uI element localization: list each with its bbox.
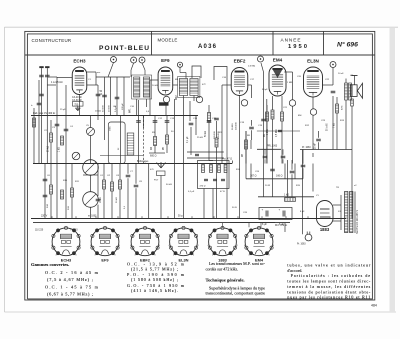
svg-text:m. 1063: m. 1063 <box>88 216 97 218</box>
svg-text:4: 4 <box>159 245 160 247</box>
svg-text:4: 4 <box>244 245 245 247</box>
svg-text:20 kΩ: 20 kΩ <box>95 111 101 113</box>
svg-text:8 μF: 8 μF <box>262 223 267 226</box>
svg-text:25 kΩ: 25 kΩ <box>100 197 102 203</box>
svg-text:4: 4 <box>115 254 116 256</box>
svg-text:1883: 1883 <box>320 227 330 232</box>
svg-text:750: 750 <box>74 103 79 106</box>
svg-text:4: 4 <box>76 254 77 256</box>
svg-text:1 MΩ: 1 MΩ <box>267 129 269 135</box>
svg-text:4: 4 <box>135 254 136 256</box>
svg-text:MF2: MF2 <box>176 95 178 100</box>
svg-text:EF9: EF9 <box>161 58 170 63</box>
svg-text:166 Ω: 166 Ω <box>276 175 283 178</box>
svg-text:0,5 MΩ: 0,5 MΩ <box>248 65 255 67</box>
svg-text:PRL 1063: PRL 1063 <box>267 145 278 147</box>
svg-text:Gammes couvertes.: Gammes couvertes. <box>31 262 69 267</box>
svg-text:EBF2: EBF2 <box>234 59 246 64</box>
svg-text:(1 580 à 508 kHz) ;: (1 580 à 508 kHz) ; <box>131 277 178 282</box>
svg-text:EM4: EM4 <box>273 58 283 63</box>
svg-text:4: 4 <box>269 254 270 256</box>
svg-text:CONSTRUCTEUR: CONSTRUCTEUR <box>32 38 72 43</box>
svg-text:OSC: OSC <box>110 126 112 131</box>
svg-text:0,1 μF: 0,1 μF <box>187 136 189 143</box>
svg-text:Ralt. tous CV. 460 kc: Ralt. tous CV. 460 kc <box>33 112 56 115</box>
svg-text:Particularités : les cathodes: Particularités : les cathodes de <box>291 273 371 278</box>
svg-text:EL3N: EL3N <box>307 59 319 64</box>
svg-text:4: 4 <box>249 254 250 256</box>
svg-text:100 pF: 100 pF <box>122 103 124 110</box>
svg-text:4: 4 <box>237 245 238 247</box>
svg-text:M.F. 472 kc: M.F. 472 kc <box>275 224 288 227</box>
svg-text:220 V: 220 V <box>41 215 48 218</box>
svg-text:7 kΩ: 7 kΩ <box>334 123 336 128</box>
svg-text:N° 696: N° 696 <box>337 40 358 48</box>
svg-text:ECH3: ECH3 <box>73 59 86 64</box>
svg-text:1 MΩ: 1 MΩ <box>287 82 293 84</box>
svg-text:4: 4 <box>193 254 194 256</box>
svg-text:EM: EM <box>298 115 301 117</box>
svg-text:tensions de polarisation étant: tensions de polarisation étant obte- <box>287 289 371 294</box>
svg-text:500.000: 500.000 <box>214 131 216 139</box>
svg-text:4: 4 <box>119 245 120 247</box>
svg-text:110 220: 110 220 <box>35 230 44 232</box>
svg-text:47 Ω: 47 Ω <box>220 191 225 193</box>
svg-text:+: + <box>279 208 281 212</box>
svg-text:484: 484 <box>371 304 377 308</box>
svg-text:50 à 60: 50 à 60 <box>327 123 329 131</box>
svg-text:4: 4 <box>232 254 233 256</box>
svg-text:50 p.: 50 p. <box>178 216 183 218</box>
svg-text:4: 4 <box>155 254 156 256</box>
svg-text:100.000: 100.000 <box>235 122 237 130</box>
svg-text:4: 4 <box>130 245 131 247</box>
svg-text:50 kΩ: 50 kΩ <box>116 197 118 203</box>
svg-text:toutes les lampes sont réunies: toutes les lampes sont réunies direc- <box>287 279 371 284</box>
svg-text:25 kΩ: 25 kΩ <box>47 146 49 152</box>
svg-text:TR: TR <box>336 187 339 189</box>
svg-text:10 kΩ: 10 kΩ <box>152 85 158 87</box>
svg-text:0,5 MΩ: 0,5 MΩ <box>276 129 278 137</box>
svg-text:SECTEUR 110-245 V: SECTEUR 110-245 V <box>356 210 359 234</box>
svg-text:+: + <box>262 208 264 212</box>
svg-text:4: 4 <box>208 245 209 247</box>
svg-text:25 kΩ: 25 kΩ <box>197 137 203 139</box>
svg-text:50 kΩ: 50 kΩ <box>205 131 207 137</box>
svg-text:FILT: FILT <box>154 180 159 182</box>
svg-text:50.000: 50.000 <box>232 123 234 130</box>
svg-text:1 kΩ: 1 kΩ <box>284 194 289 197</box>
svg-text:A036: A036 <box>198 44 217 50</box>
svg-text:4: 4 <box>90 245 91 247</box>
svg-text:Les transformateurs M.F. sont: Les transformateurs M.F. sont ac- <box>209 261 266 266</box>
svg-text:4: 4 <box>51 245 52 247</box>
svg-text:MF1: MF1 <box>130 108 132 113</box>
svg-text:4: 4 <box>95 254 96 256</box>
svg-text:+: + <box>31 103 33 107</box>
svg-text:cordés sur 472 kHz.: cordés sur 472 kHz. <box>206 266 239 271</box>
svg-text:8 μF: 8 μF <box>300 211 305 213</box>
svg-text:MODELE: MODELE <box>158 38 178 43</box>
svg-text:Pr. 1063: Pr. 1063 <box>302 146 311 149</box>
svg-text:nues par les résistances R10 e: nues par les résistances R10 et R11 <box>287 295 370 300</box>
svg-text:600 Ω: 600 Ω <box>150 155 157 158</box>
svg-text:EF9: EF9 <box>101 257 109 262</box>
svg-text:4: 4 <box>56 254 57 256</box>
svg-text:25 pF: 25 pF <box>60 109 66 111</box>
svg-text:20.000: 20.000 <box>109 105 111 112</box>
svg-text:4: 4 <box>198 245 199 247</box>
svg-text:O.C. 2 - 16 à 45 m: O.C. 2 - 16 à 45 m <box>45 270 99 275</box>
svg-text:50 kΩ: 50 kΩ <box>166 184 172 186</box>
svg-text:Pr. 1063: Pr. 1063 <box>297 243 306 246</box>
svg-text:4: 4 <box>80 245 81 247</box>
svg-text:470 Ω: 470 Ω <box>200 186 206 188</box>
svg-text:d'accord.: d'accord. <box>287 268 302 273</box>
svg-text:POINT-BLEU: POINT-BLEU <box>99 45 149 52</box>
svg-text:HP: HP <box>350 75 354 77</box>
svg-text:10 nF: 10 nF <box>338 73 344 75</box>
svg-text:50.000: 50.000 <box>103 105 105 112</box>
svg-text:O.C. 1 - 45 à 75 m: O.C. 1 - 45 à 75 m <box>45 285 99 290</box>
svg-text:4: 4 <box>273 245 274 247</box>
svg-text:4: 4 <box>212 254 213 256</box>
svg-text:Technique générale.: Technique générale. <box>206 278 245 283</box>
svg-text:20 nF: 20 nF <box>315 143 317 149</box>
svg-text:4: 4 <box>169 245 170 247</box>
svg-text:0,1 μF: 0,1 μF <box>188 191 195 193</box>
svg-text:ANNEE: ANNEE <box>281 38 301 43</box>
svg-text:4: 4 <box>173 254 174 256</box>
svg-text:50 pF: 50 pF <box>262 89 268 91</box>
svg-text:1 kΩ: 1 kΩ <box>58 147 60 152</box>
svg-text:EXC: EXC <box>341 105 343 110</box>
svg-text:30 Ω: 30 Ω <box>232 207 237 209</box>
